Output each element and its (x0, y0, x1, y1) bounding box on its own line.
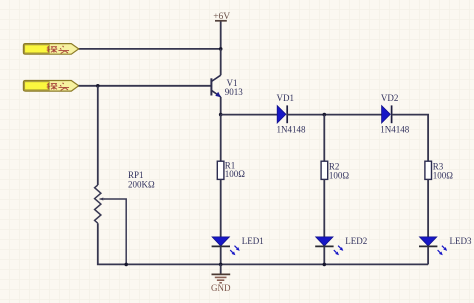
svg-text:VD1: VD1 (277, 93, 295, 103)
power +6V bar (215, 20, 227, 22)
wire R1 bottom to LED1 (220, 179, 222, 237)
resistor R1 (217, 161, 224, 179)
wire LED3 to ground rail (427, 246, 429, 264)
svg-text:VD2: VD2 (381, 93, 399, 103)
svg-text:LED1: LED1 (242, 236, 264, 246)
ground GND (212, 264, 231, 282)
probe P1 (23, 44, 78, 55)
LED LED3 (419, 237, 447, 255)
wire node to R1 top (220, 115, 222, 162)
wire RP1 wiper (104, 199, 126, 264)
node LED2/ground rail (323, 263, 327, 267)
wire LED1 to ground rail (220, 246, 222, 264)
wire probe1 to +6V rail (79, 48, 221, 50)
svg-text:GND: GND (211, 283, 231, 293)
node wiper/ground rail (124, 263, 128, 267)
node probe2/RP1 junction (96, 84, 100, 88)
diode VD2 (382, 105, 392, 123)
svg-text:1N4148: 1N4148 (380, 125, 409, 135)
wire RP1 bottom to ground rail (98, 223, 428, 264)
wire VD2 cathode to R3 rail (392, 115, 429, 162)
wire VD junction down to R2 top (323, 115, 325, 162)
LED LED1 (212, 237, 240, 255)
svg-text:100Ω: 100Ω (329, 170, 350, 180)
wire emitter down to node (220, 97, 222, 115)
wire emitter node to VD1 anode (221, 114, 278, 116)
wire +6V rail down to collector (220, 49, 222, 75)
wire +6V down to probe1 junction (220, 22, 222, 50)
svg-text:1N4148: 1N4148 (277, 125, 306, 135)
node emitter junction (219, 113, 223, 117)
resistor R3 (425, 161, 432, 179)
wire R3 bottom to LED3 (427, 179, 429, 237)
probe P1 label 探头 (47, 46, 69, 54)
node LED1/ground rail (219, 263, 223, 267)
node VD1/R2 junction (323, 113, 327, 117)
wire LED2 to ground rail (323, 246, 325, 264)
wire junction down to RP1 top (97, 86, 99, 185)
diode VD1 (277, 105, 287, 123)
svg-text:100Ω: 100Ω (225, 169, 246, 179)
LED LED2 (315, 237, 343, 255)
svg-text:9013: 9013 (225, 87, 244, 97)
wire probe2 to base (79, 85, 212, 87)
svg-text:+6V: +6V (213, 12, 230, 22)
transistor V1 (211, 75, 221, 97)
probe P2 (23, 81, 78, 92)
node probe1/+6V junction (219, 47, 223, 51)
probe P2 label 探头 (47, 83, 69, 91)
svg-text:100Ω: 100Ω (433, 170, 454, 180)
resistor R2 (321, 161, 328, 179)
wire VD1 cathode to VD2 anode (287, 114, 381, 116)
wire R2 bottom to LED2 (323, 179, 325, 237)
svg-text:200KΩ: 200KΩ (128, 180, 155, 190)
svg-text:LED2: LED2 (345, 236, 367, 246)
svg-text:LED3: LED3 (450, 236, 472, 246)
potentiometer RP1 (95, 185, 105, 223)
